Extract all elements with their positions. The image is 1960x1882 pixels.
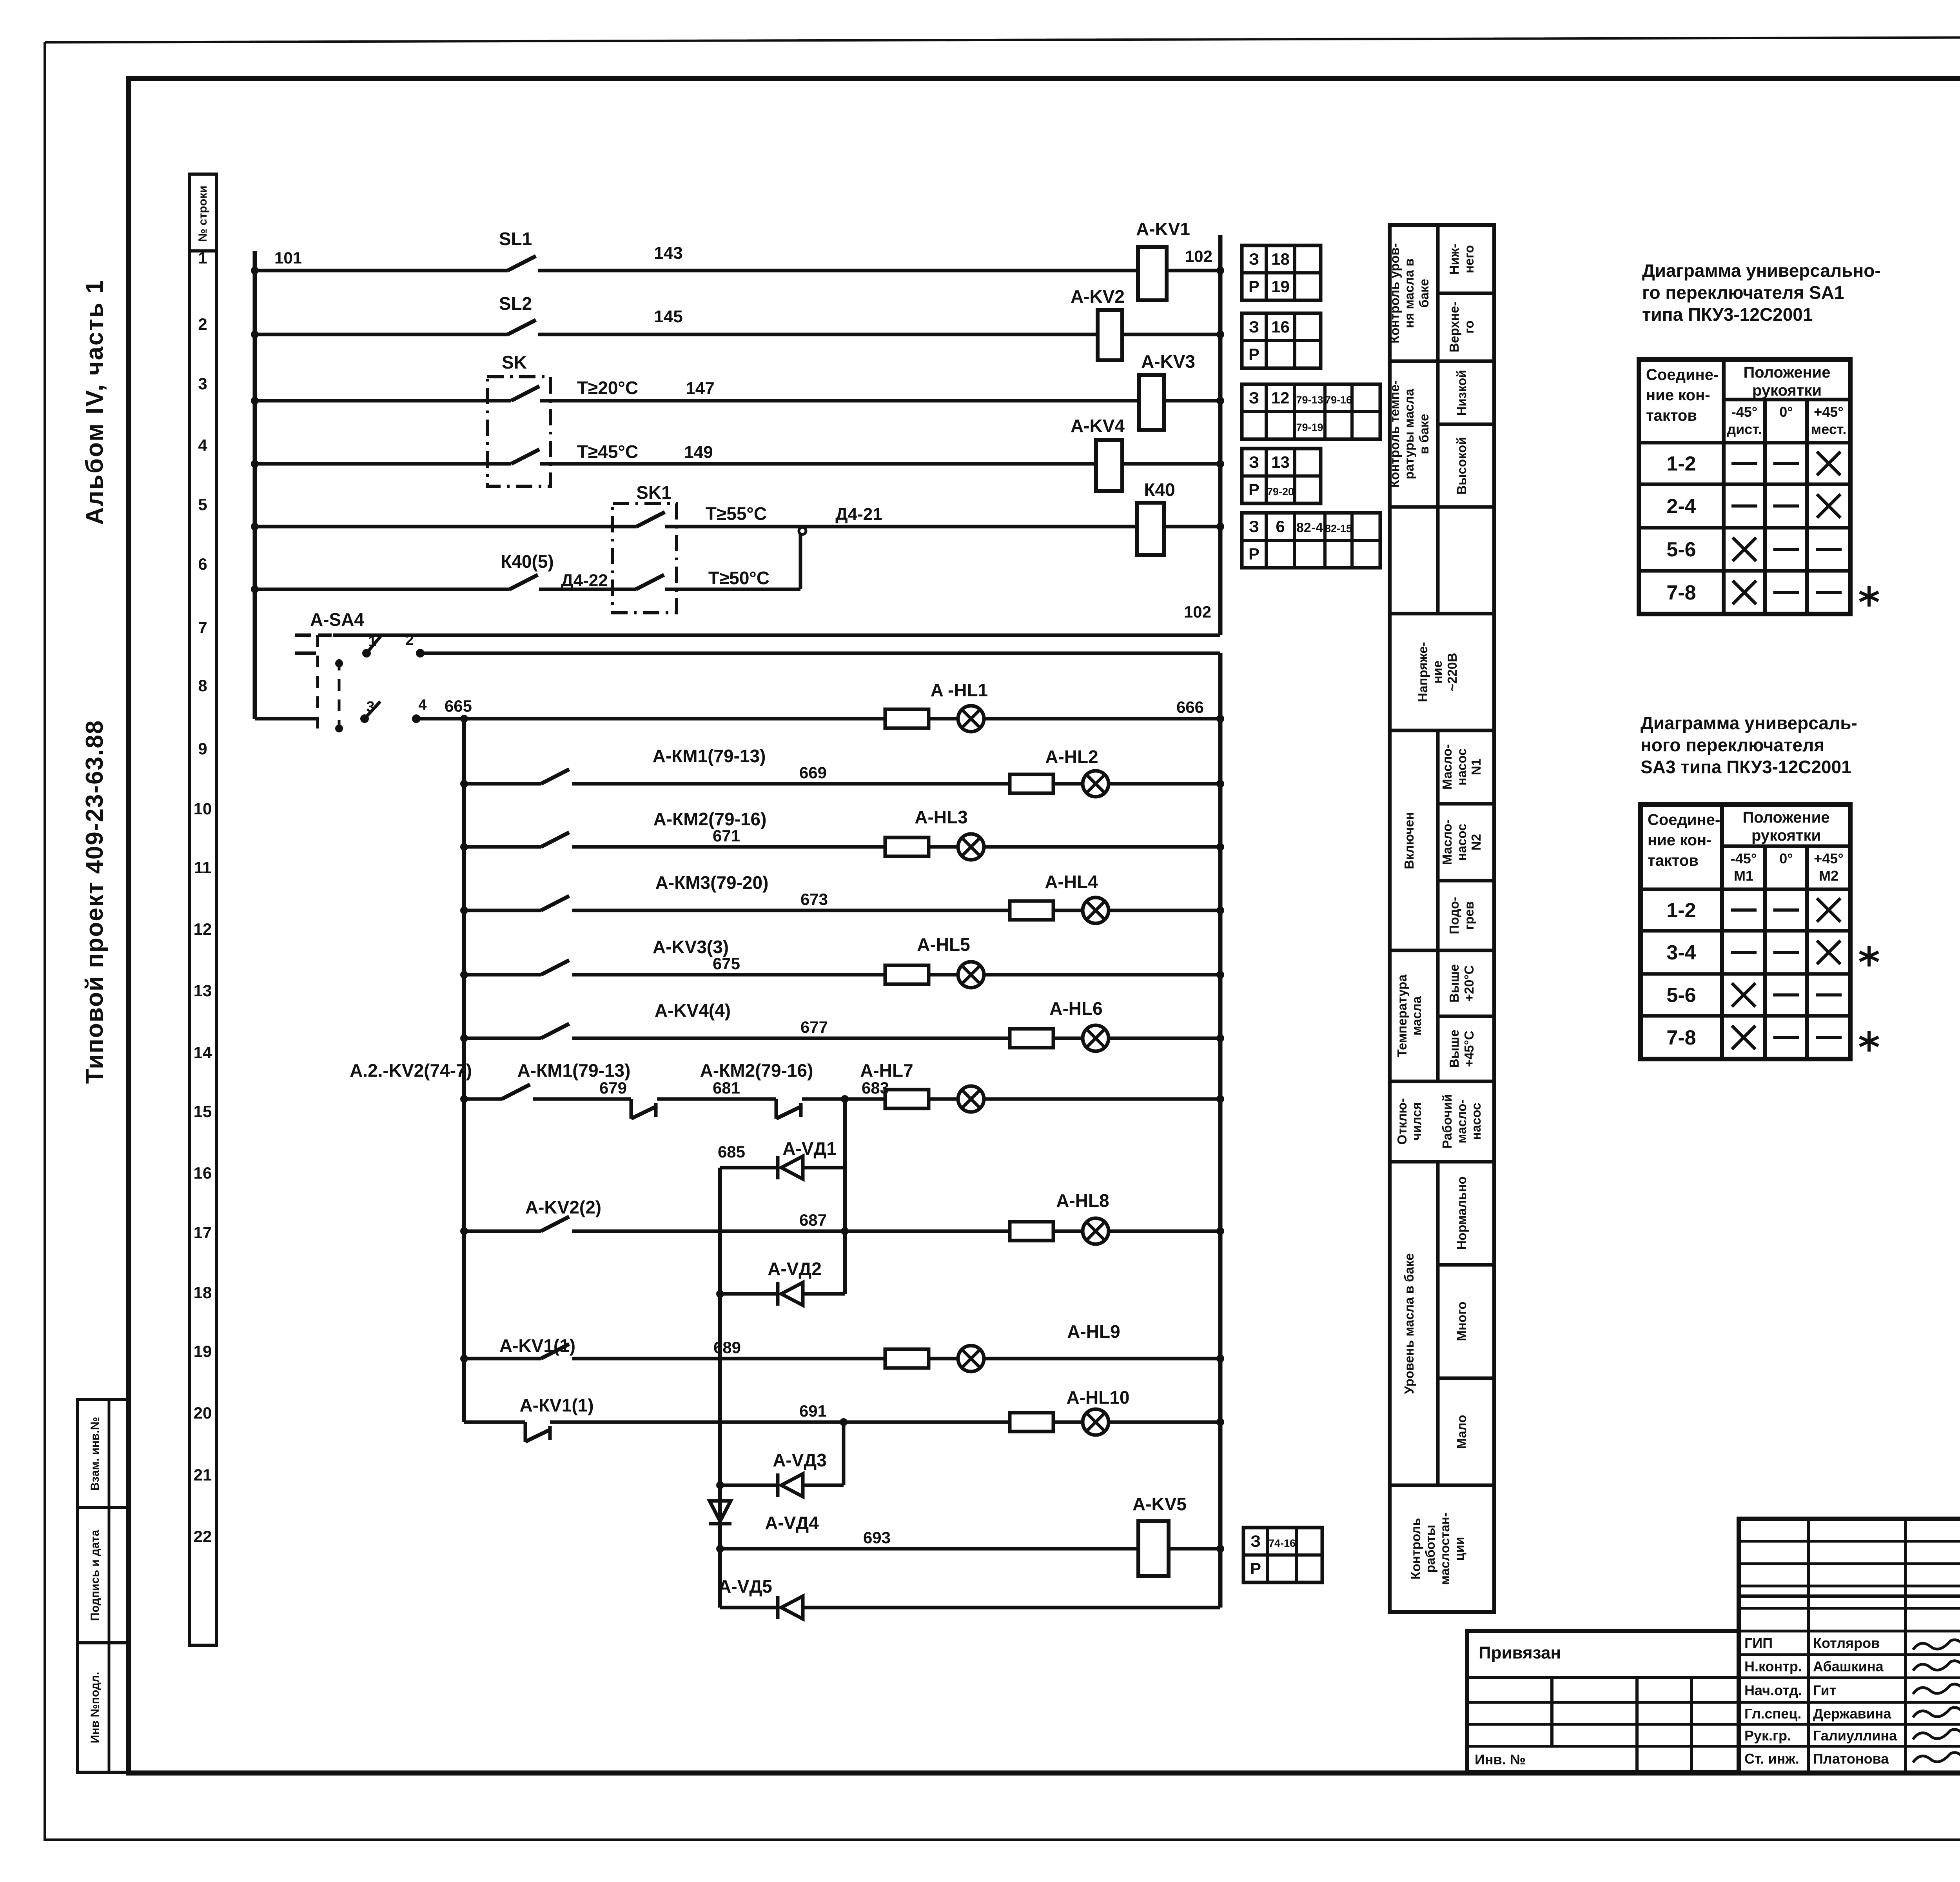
svg-text:16: 16 (1271, 318, 1290, 336)
svg-text:Высокой: Высокой (1454, 437, 1469, 494)
svg-text:Диаграмма универсаль-: Диаграмма универсаль- (1641, 713, 1857, 733)
svg-text:N2: N2 (1469, 834, 1483, 850)
switch SL2 (499, 293, 536, 334)
wire 149 (540, 462, 1096, 466)
bus 666 (right, rows 7-22) (1218, 653, 1223, 1608)
legend cell верхнего (1447, 302, 1476, 352)
svg-text:0°: 0° (1779, 850, 1793, 867)
svg-text:Д4-21: Д4-21 (835, 505, 882, 524)
lamp A-HL1 (929, 680, 988, 732)
svg-text:T≥55°C: T≥55°C (706, 503, 767, 524)
svg-text:Отклю-: Отклю- (1395, 1098, 1409, 1145)
svg-text:A-VД4: A-VД4 (765, 1513, 819, 1533)
wire 671 row10 (572, 827, 885, 847)
svg-text:го переключателя SA1: го переключателя SA1 (1642, 282, 1844, 303)
svg-text:A-HL5: A-HL5 (917, 934, 970, 955)
svg-text:З: З (1249, 453, 1259, 471)
relay coil A-KV2 (1071, 286, 1125, 360)
wire row21 to bus (1169, 1545, 1224, 1553)
wire row6 left (255, 588, 510, 591)
svg-text:7: 7 (198, 618, 207, 637)
svg-text:мест.: мест. (1811, 421, 1847, 437)
svg-text:A-VД2: A-VД2 (768, 1259, 822, 1279)
svg-text:Соедине-: Соедине- (1646, 366, 1719, 383)
svg-text:Инв. №: Инв. № (1475, 1751, 1526, 1768)
svg-text:А-КМ1(79-13): А-КМ1(79-13) (653, 746, 766, 766)
wire 679 (533, 1079, 631, 1099)
svg-text:Р: Р (1249, 277, 1259, 296)
svg-text:2-4: 2-4 (1666, 495, 1696, 518)
svg-text:него: него (1462, 245, 1476, 273)
vertical 683 link (843, 1099, 847, 1294)
svg-text:102: 102 (1185, 247, 1212, 265)
svg-text:A-HL10: A-HL10 (1066, 1387, 1129, 1408)
svg-text:14: 14 (194, 1043, 212, 1062)
svg-text:Подо-: Подо- (1447, 897, 1461, 934)
svg-text:A-HL6: A-HL6 (1049, 998, 1102, 1019)
svg-text:17: 17 (194, 1223, 212, 1242)
svg-text:З: З (1249, 389, 1259, 407)
asterisk SA1 row 3 (1860, 586, 1878, 607)
break contact А-КМ1(79-13) row14 (517, 1060, 657, 1119)
svg-text:1-2: 1-2 (1666, 899, 1696, 922)
svg-text:2: 2 (405, 632, 414, 649)
svg-text:Нач.отд.: Нач.отд. (1744, 1682, 1802, 1699)
SA4 contact 4 (412, 697, 427, 723)
svg-text:A-HL3: A-HL3 (915, 807, 967, 827)
svg-text:18: 18 (1271, 250, 1290, 268)
legend cell нижнего (1447, 244, 1476, 275)
wire row18 to bus (984, 1355, 1224, 1362)
resistor row18 (885, 1349, 929, 1368)
resistor row12 (885, 965, 929, 984)
svg-text:дист.: дист. (1727, 421, 1762, 437)
svg-text:19: 19 (194, 1342, 212, 1361)
svg-text:Д4-22: Д4-22 (561, 571, 608, 590)
svg-text:677: 677 (800, 1018, 828, 1036)
diode A-VD1 (720, 1138, 845, 1179)
resistor row14 (885, 1090, 929, 1108)
svg-text:тактов: тактов (1646, 407, 1697, 424)
wire row11 to bus (1109, 906, 1224, 914)
wire row13 to bus (1109, 1034, 1224, 1042)
SK contact T>=45C (511, 449, 539, 464)
svg-text:143: 143 (654, 243, 682, 263)
label T>=45C 149 (577, 441, 713, 462)
terminal table A-KV1 (1242, 245, 1321, 300)
svg-text:T≥20°C: T≥20°C (577, 378, 638, 398)
svg-text:Много: Много (1454, 1301, 1469, 1341)
diagram heading SA3 (1641, 713, 1857, 777)
svg-text:A-KV1(1): A-KV1(1) (499, 1335, 575, 1356)
svg-text:Выше: Выше (1447, 964, 1461, 1003)
wire 666 (984, 698, 1224, 723)
svg-text:1: 1 (368, 633, 376, 650)
svg-text:З: З (1249, 517, 1259, 536)
wire row10 to bus (984, 843, 1224, 851)
side stamp box Взам.инв.№ (78, 1400, 129, 1508)
lamp A-HL3 (915, 807, 984, 860)
wire row9 to bus (1109, 780, 1224, 788)
lamp A-HL6 (1049, 998, 1109, 1051)
wire row8 from bus101 (255, 717, 316, 721)
wire row6 to riser (665, 588, 800, 591)
svg-text:669: 669 (799, 763, 827, 782)
wire D4-22 (539, 571, 636, 590)
svg-text:13: 13 (194, 981, 212, 1000)
svg-text:ГИП: ГИП (1744, 1635, 1773, 1651)
bus 102 (right, rows 1-7) (1218, 235, 1223, 635)
margin text Альбом IV, часть 1 (81, 279, 108, 525)
label T>=20C 147 (577, 378, 715, 398)
svg-text:A-KV2(2): A-KV2(2) (525, 1197, 601, 1217)
svg-text:+45°С: +45°С (1462, 1030, 1476, 1067)
svg-text:149: 149 (684, 443, 713, 462)
svg-text:масла: масла (1409, 996, 1424, 1035)
svg-text:Рук.гр.: Рук.гр. (1744, 1728, 1791, 1744)
svg-text:673: 673 (800, 890, 828, 908)
svg-text:№ строки: № строки (196, 185, 209, 242)
svg-text:79-20: 79-20 (1267, 486, 1294, 498)
side stamp box Инв.№ подл. (78, 1643, 129, 1772)
terminal table A-KV2 (1242, 313, 1321, 368)
terminal table A-KV3 (1242, 384, 1380, 439)
svg-text:A-KV3: A-KV3 (1141, 351, 1195, 372)
svg-text:грев: грев (1462, 901, 1476, 930)
svg-text:Котляров: Котляров (1813, 1635, 1880, 1651)
line number column (190, 174, 216, 1645)
wire row14 to bus (984, 1095, 1224, 1103)
svg-text:1-2: 1-2 (1666, 452, 1696, 475)
svg-text:5: 5 (198, 495, 207, 514)
svg-text:693: 693 (863, 1528, 891, 1547)
signature scribbles (1913, 1640, 1960, 1762)
svg-text:Р: Р (1250, 1559, 1261, 1578)
svg-text:T≥50°C: T≥50°C (708, 568, 769, 588)
svg-text:Ниж-: Ниж- (1447, 244, 1461, 275)
wire 693 (720, 1528, 1138, 1549)
contact K40(5) (501, 551, 554, 589)
svg-text:SL2: SL2 (499, 293, 532, 314)
svg-text:З: З (1249, 250, 1259, 268)
svg-text:8: 8 (198, 676, 207, 695)
legend cell напряжение 220В (1416, 642, 1459, 702)
resistor row11 (1010, 901, 1053, 920)
svg-text:Типовой проект 409-23-63.88: Типовой проект 409-23-63.88 (81, 720, 108, 1084)
wire 687 (572, 1211, 1010, 1235)
resistor row13 (1010, 1029, 1053, 1048)
wire 689 (572, 1338, 885, 1359)
svg-text:N1: N1 (1469, 759, 1483, 775)
svg-text:в баке: в баке (1417, 414, 1431, 454)
svg-text:A-KV2: A-KV2 (1071, 286, 1125, 307)
legend cell уровень масла (1402, 1253, 1416, 1394)
svg-text:666: 666 (1176, 698, 1204, 716)
legend cell высокой (1454, 437, 1469, 494)
SK contact T>=20C (511, 386, 539, 401)
svg-text:Державина: Державина (1813, 1706, 1892, 1722)
terminal table K40 (1242, 513, 1380, 568)
lamp A-HL4 (1045, 872, 1109, 923)
svg-text:687: 687 (799, 1211, 827, 1229)
svg-text:Р: Р (1249, 345, 1259, 363)
break contact A-KV1(1) row19 (464, 1395, 594, 1442)
relay coil A-KV3 (1139, 351, 1195, 430)
svg-text:685: 685 (718, 1143, 745, 1161)
svg-text:689: 689 (713, 1338, 741, 1357)
switch A-SA4 label (310, 609, 364, 630)
svg-text:SA3 типа ПКУ3-12С2001: SA3 типа ПКУ3-12С2001 (1641, 757, 1851, 777)
svg-text:чился: чился (1409, 1102, 1424, 1141)
wire row5 left (255, 525, 637, 529)
resistor row19 (1010, 1413, 1053, 1431)
svg-text:9: 9 (198, 739, 207, 758)
node 693 (716, 1545, 724, 1553)
legend cell выше 45 (1447, 1030, 1476, 1068)
svg-text:Гит: Гит (1813, 1682, 1836, 1699)
resistor row8 (885, 709, 929, 728)
thermal switch SK1 box (613, 482, 677, 613)
svg-text:79-19: 79-19 (1296, 421, 1323, 433)
svg-text:А-КМ2(79-16): А-КМ2(79-16) (700, 1060, 813, 1081)
svg-text:101: 101 (274, 249, 302, 267)
wire 675 row12 (572, 954, 885, 975)
svg-text:рукоятки: рукоятки (1752, 382, 1822, 399)
svg-text:М1: М1 (1734, 868, 1753, 884)
svg-text:18: 18 (194, 1283, 212, 1302)
svg-text:Температура: Температура (1395, 974, 1409, 1057)
svg-text:З: З (1249, 318, 1259, 336)
legend cell контроль уровня масла (1387, 243, 1431, 343)
break contact А-КМ2(79-16) row14 (700, 1060, 813, 1119)
svg-text:Абашкина: Абашкина (1813, 1659, 1884, 1675)
wire 665 (416, 697, 885, 719)
contact row12 (460, 937, 729, 979)
title block outer (1739, 1519, 1960, 1773)
resistor row16 (1010, 1222, 1053, 1241)
wire row1 left (255, 269, 508, 272)
wire 145 (538, 307, 1098, 334)
svg-text:Соедине-: Соедине- (1648, 811, 1720, 828)
node circle row5 (799, 527, 806, 534)
legend cell много (1454, 1301, 1469, 1341)
label T>=55C (706, 503, 767, 524)
svg-text:19: 19 (1271, 277, 1290, 296)
legend cell маслонасос N1 (1440, 744, 1483, 790)
wire 143 (538, 243, 1138, 271)
relay coil A-KV1 (1136, 219, 1190, 300)
svg-text:679: 679 (599, 1079, 627, 1097)
svg-text:13: 13 (1271, 453, 1290, 471)
svg-text:22: 22 (194, 1527, 212, 1546)
svg-text:М2: М2 (1819, 868, 1838, 884)
svg-text:Диаграмма универсально-: Диаграмма универсально- (1642, 260, 1881, 281)
svg-text:ного переключателя: ного переключателя (1641, 735, 1824, 755)
bus 101 (left supply bus) (255, 249, 302, 719)
svg-text:Мало: Мало (1454, 1415, 1469, 1449)
svg-text:Р: Р (1249, 480, 1259, 499)
legend cell рабочий маслонасос (1440, 1094, 1483, 1148)
svg-text:рукоятки: рукоятки (1751, 827, 1821, 844)
svg-text:Платонова: Платонова (1813, 1751, 1889, 1767)
legend cell включен (1402, 812, 1416, 869)
svg-text:Привязан: Привязан (1479, 1643, 1561, 1662)
wire 683 (802, 1079, 889, 1103)
svg-text:691: 691 (799, 1402, 827, 1420)
svg-text:~220В: ~220В (1445, 653, 1459, 691)
svg-text:К40: К40 (1144, 480, 1175, 500)
wire row12 to bus (984, 971, 1224, 979)
svg-text:79-13: 79-13 (1296, 394, 1323, 406)
wire row2 to bus (1122, 331, 1224, 338)
diode A-VD5 (718, 1576, 1220, 1619)
svg-text:Низкой: Низкой (1454, 370, 1469, 416)
svg-text:З: З (1250, 1532, 1261, 1550)
lamp A-HL10 (1053, 1387, 1130, 1435)
SK1 contact T>=50C (636, 568, 769, 589)
svg-text:4: 4 (418, 697, 426, 713)
svg-text:A-KV4: A-KV4 (1071, 416, 1125, 436)
svg-text:Контроль уров-: Контроль уров- (1387, 243, 1402, 343)
svg-text:A-HL2: A-HL2 (1045, 747, 1098, 767)
lamp A-HL8 (1053, 1190, 1109, 1244)
svg-text:Р: Р (1249, 545, 1259, 563)
svg-text:Напряже-: Напряже- (1416, 642, 1430, 702)
svg-text:7-8: 7-8 (1666, 1026, 1696, 1049)
svg-text:Взам. инв.№: Взам. инв.№ (89, 1417, 102, 1491)
svg-text:ня масла в: ня масла в (1402, 258, 1416, 328)
svg-text:масло-: масло- (1454, 1099, 1469, 1143)
wire row4 to bus (1122, 460, 1224, 468)
svg-text:насос: насос (1454, 824, 1469, 861)
svg-text:Подпись и дата: Подпись и дата (89, 1530, 102, 1621)
svg-text:A -HL1: A -HL1 (931, 680, 988, 700)
svg-text:5-6: 5-6 (1666, 984, 1696, 1007)
svg-text:А-КМ1(79-13): А-КМ1(79-13) (517, 1060, 631, 1081)
svg-text:20: 20 (194, 1404, 212, 1422)
svg-text:A-VД1: A-VД1 (782, 1138, 837, 1159)
sub-bus 665 vertical (462, 719, 466, 1422)
svg-text:6: 6 (198, 555, 207, 573)
diagram table SA1 (1639, 360, 1850, 614)
svg-text:Галиуллина: Галиуллина (1813, 1728, 1897, 1744)
svg-text:145: 145 (654, 307, 682, 326)
svg-text:675: 675 (713, 954, 740, 973)
legend cell мало (1454, 1415, 1469, 1449)
svg-text:К40(5): К40(5) (501, 551, 554, 572)
svg-text:A-HL9: A-HL9 (1067, 1321, 1120, 1342)
wire row7 (SA4 contacts 1-2) (295, 652, 1220, 655)
svg-text:Контроль темпе-: Контроль темпе- (1387, 380, 1402, 488)
title block thin rows grid (1739, 1519, 1960, 1773)
legend cell маслонасос N2 (1440, 819, 1483, 865)
svg-text:Н.контр.: Н.контр. (1744, 1659, 1802, 1675)
svg-text:А-КМ3(79-20): А-КМ3(79-20) (655, 872, 769, 893)
svg-text:+45°: +45° (1814, 850, 1843, 867)
diode A-VD2 (716, 1259, 845, 1306)
svg-text:Рабочий: Рабочий (1440, 1094, 1454, 1148)
relay coil A-KV4 (1071, 416, 1125, 491)
wire row2 left (255, 333, 508, 336)
wire row5 to bus (1164, 523, 1224, 530)
contact row11 (460, 872, 768, 914)
wire 147 (540, 399, 1139, 403)
resistor row10 (885, 837, 929, 856)
svg-text:-45°: -45° (1731, 404, 1757, 420)
svg-text:Положение: Положение (1743, 364, 1830, 381)
svg-text:3-4: 3-4 (1666, 941, 1696, 964)
svg-text:баке: баке (1417, 279, 1431, 308)
node dots on bus 101 (251, 267, 259, 593)
svg-text:Масло-: Масло- (1440, 744, 1454, 790)
svg-text:665: 665 (445, 697, 472, 715)
relay coil K40 (1137, 480, 1175, 555)
vertical 691 to VD3 (842, 1422, 846, 1485)
legend cell нормально (1454, 1176, 1469, 1250)
svg-text:SL1: SL1 (499, 229, 532, 249)
svg-text:A-KV1: A-KV1 (1136, 219, 1190, 239)
lamp A-HL2 (1045, 747, 1109, 797)
contact A-KV1(1) row18 (460, 1335, 575, 1362)
contact row9 (460, 746, 766, 788)
svg-text:82-15: 82-15 (1325, 523, 1352, 534)
contact A2.-KV2(74-7) row14 (350, 1060, 530, 1103)
node 685 corner (718, 1143, 745, 1608)
svg-text:A-HL7: A-HL7 (860, 1060, 913, 1081)
svg-text:681: 681 (713, 1079, 740, 1097)
svg-text:маслостан-: маслостан- (1437, 1513, 1452, 1585)
svg-text:7-8: 7-8 (1666, 581, 1696, 604)
svg-text:3: 3 (198, 374, 207, 393)
svg-text:16: 16 (194, 1164, 212, 1182)
wire 673 row11 (572, 890, 1010, 910)
svg-text:82-4: 82-4 (1296, 520, 1323, 535)
svg-text:1: 1 (198, 249, 207, 267)
legend cell низкой (1454, 370, 1469, 416)
svg-text:ние кон-: ние кон- (1648, 832, 1712, 849)
wire 681 (657, 1079, 776, 1099)
asterisk SA3 row 3 (1860, 1031, 1878, 1052)
svg-text:SK1: SK1 (636, 482, 671, 503)
svg-text:ратуры масла: ратуры масла (1402, 389, 1416, 480)
svg-text:147: 147 (686, 379, 714, 398)
svg-text:Выше: Выше (1447, 1030, 1461, 1068)
svg-text:A-HL4: A-HL4 (1045, 872, 1098, 892)
wire row19 to bus (1109, 1418, 1224, 1426)
margin text Типовой проект 409-23-63.88 (81, 720, 108, 1084)
svg-text:Нормально: Нормально (1454, 1176, 1469, 1250)
svg-text:го: го (1462, 320, 1476, 333)
lamp A-HL9 (929, 1321, 1120, 1372)
svg-text:21: 21 (194, 1466, 212, 1484)
svg-text:3: 3 (366, 699, 374, 715)
svg-text:5-6: 5-6 (1666, 538, 1696, 561)
doc code ЭМ (1739, 1539, 1960, 1596)
legend cell выше 20 (1447, 964, 1476, 1003)
SA4 mechanical linkage dashed (318, 635, 343, 732)
wire D4-21 (665, 505, 1137, 527)
svg-text:-45°: -45° (1731, 850, 1757, 867)
svg-text:насос: насос (1454, 748, 1469, 786)
svg-text:+45°: +45° (1814, 404, 1843, 420)
svg-text:Гл.спец.: Гл.спец. (1744, 1706, 1801, 1722)
привязан table (1467, 1631, 1739, 1772)
svg-text:Ст. инж.: Ст. инж. (1744, 1751, 1799, 1767)
svg-text:2: 2 (198, 315, 207, 333)
svg-text:A-SA4: A-SA4 (310, 609, 364, 630)
svg-text:15: 15 (194, 1102, 212, 1121)
svg-text:4: 4 (198, 436, 207, 454)
